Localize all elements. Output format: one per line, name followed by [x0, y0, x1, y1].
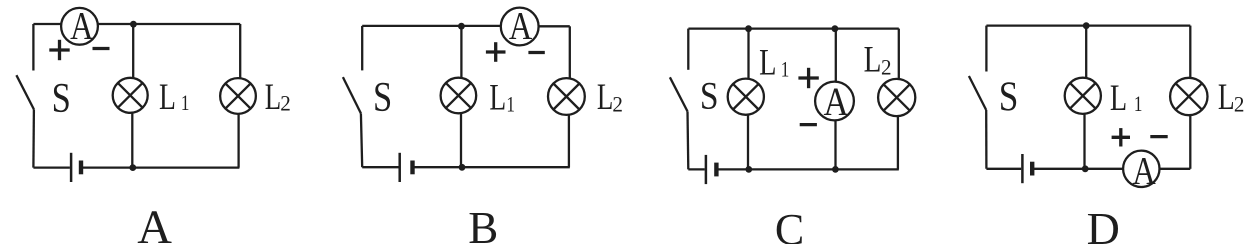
- lamp L1 of circuit A: [113, 78, 148, 113]
- label L1 of circuit D: [1110, 78, 1143, 118]
- circuit choice C: [670, 25, 915, 244]
- node top junction of circuit A: [130, 21, 137, 28]
- wire C: top rail: [688, 27, 898, 29]
- svg-text:A: A: [70, 4, 93, 48]
- svg-text:L: L: [1218, 76, 1235, 117]
- svg-text:L: L: [1110, 78, 1127, 118]
- switch S of circuit B: [343, 26, 362, 167]
- svg-text:1: 1: [181, 91, 190, 116]
- wire B: bottom rail right segment: [413, 166, 570, 168]
- svg-text:S: S: [52, 76, 71, 122]
- node top junction 2 of circuit C: [832, 25, 839, 32]
- wire A: top rail right segment: [98, 23, 241, 25]
- polarity - of ammeter A1 (circuit A): [93, 47, 110, 50]
- polarity + of ammeter A1 (circuit C): [798, 68, 818, 88]
- circuit choice B: [343, 3, 623, 244]
- svg-text:D: D: [1087, 203, 1120, 244]
- wire C: bottom rail right segment: [716, 168, 898, 170]
- battery B1 of circuit A: [71, 153, 81, 182]
- battery B1 of circuit C: [706, 155, 717, 184]
- svg-text:B: B: [468, 203, 498, 244]
- wire A: bottom rail left segment: [33, 166, 70, 168]
- svg-text:L: L: [597, 76, 613, 117]
- wire A: L2 branch bottom: [237, 113, 239, 167]
- wire D: bottom rail left segment: [986, 168, 1021, 170]
- polarity + of ammeter A1 (circuit D): [1112, 128, 1130, 146]
- wire C: L2 branch top: [898, 29, 900, 80]
- ammeter A1 of circuit C: [815, 80, 854, 125]
- svg-text:1: 1: [781, 57, 790, 82]
- lamp L1 of circuit B: [441, 78, 477, 114]
- svg-text:2: 2: [881, 55, 892, 80]
- wire D: L2 branch bottom: [1189, 115, 1191, 169]
- wire A: top rail left segment: [33, 23, 61, 25]
- ammeter A1 of circuit B: [501, 3, 539, 47]
- node bottom junction of circuit D: [1082, 165, 1089, 172]
- wire D: L1 branch bottom: [1083, 113, 1085, 168]
- lamp L2 of circuit D: [1170, 78, 1207, 115]
- svg-text:C: C: [775, 205, 804, 244]
- wire B: top rail right segment: [539, 25, 570, 27]
- wire A: L1 branch bottom: [131, 112, 133, 167]
- polarity - of ammeter A1 (circuit B): [528, 51, 544, 54]
- lamp L2 of circuit B: [548, 78, 585, 115]
- svg-text:A: A: [1132, 148, 1155, 192]
- svg-text:2: 2: [1234, 92, 1245, 117]
- lamp L1 of circuit C: [728, 79, 764, 115]
- ammeter A1 of circuit D: [1123, 148, 1159, 192]
- wire D: bottom rail right segment: [1159, 168, 1190, 170]
- label L2 of circuit B: [597, 76, 623, 117]
- wire B: top rail left segment: [362, 25, 501, 27]
- polarity - of ammeter A1 (circuit C): [800, 123, 817, 126]
- wire B: L1 branch top: [460, 26, 462, 78]
- svg-text:A: A: [137, 201, 172, 244]
- node bottom junction of circuit B: [459, 164, 466, 171]
- node bottom junction of circuit A: [129, 164, 136, 171]
- switch S of circuit C: [670, 29, 688, 170]
- wire D: L2 branch top: [1189, 26, 1191, 79]
- polarity + of ammeter A1 (circuit A): [49, 40, 69, 60]
- wire C: L1 branch bottom: [747, 114, 749, 169]
- svg-text:L: L: [159, 77, 176, 118]
- svg-text:A: A: [509, 3, 532, 47]
- node top junction of circuit D: [1083, 22, 1090, 29]
- circuit choice A: [16, 4, 290, 244]
- lamp L2 of circuit A: [220, 78, 256, 114]
- battery B1 of circuit B: [400, 153, 413, 182]
- label L1 of circuit A: [159, 77, 189, 118]
- wire B: L2 branch bottom: [568, 115, 570, 167]
- ammeter A1 of circuit A: [61, 4, 98, 48]
- node top junction 1 of circuit C: [745, 25, 752, 32]
- svg-text:1: 1: [506, 92, 515, 117]
- label L2 of circuit D: [1218, 76, 1244, 117]
- svg-text:L: L: [759, 43, 776, 83]
- svg-text:L: L: [864, 40, 882, 80]
- lamp L1 of circuit D: [1065, 78, 1101, 114]
- wire D: bottom rail middle segment: [1032, 168, 1123, 170]
- svg-text:2: 2: [280, 91, 291, 116]
- switch S of circuit D: [969, 26, 987, 169]
- battery B1 of circuit D: [1022, 154, 1032, 183]
- wire C: L1 branch top: [747, 29, 749, 80]
- wire B: L1 branch bottom: [460, 114, 462, 167]
- node bottom junction 2 of circuit C: [832, 166, 839, 173]
- node bottom junction 1 of circuit C: [745, 166, 752, 173]
- svg-text:S: S: [373, 75, 392, 121]
- svg-text:L: L: [265, 76, 281, 117]
- wire C: ammeter branch bottom: [834, 120, 836, 169]
- wire A: bottom rail right segment: [81, 166, 239, 168]
- wire C: L2 branch bottom: [897, 116, 899, 170]
- wire B: L2 branch top: [569, 26, 571, 78]
- circuit choice D: [969, 22, 1244, 244]
- wire D: top rail: [986, 24, 1190, 26]
- svg-text:S: S: [999, 73, 1019, 120]
- lamp L2 of circuit C: [878, 79, 915, 116]
- node top junction of circuit B: [458, 23, 465, 30]
- polarity + of ammeter A1 (circuit B): [486, 42, 506, 62]
- wire D: L1 branch top: [1085, 26, 1087, 79]
- wire C: bottom rail left segment: [688, 168, 704, 170]
- label L1 of circuit C: [759, 43, 789, 83]
- wire B: bottom rail left segment: [362, 166, 398, 168]
- svg-text:2: 2: [612, 92, 623, 117]
- svg-text:A: A: [824, 80, 849, 125]
- label L1 of circuit B: [489, 77, 514, 118]
- svg-text:S: S: [700, 74, 719, 117]
- label L2 of circuit C: [864, 40, 892, 80]
- svg-text:L: L: [489, 77, 506, 118]
- wire A: L2 branch top: [239, 24, 241, 79]
- label L2 of circuit A: [265, 76, 291, 117]
- wire A: L1 branch top: [132, 24, 134, 78]
- wire C: ammeter branch top: [835, 29, 837, 83]
- polarity - of ammeter A1 (circuit D): [1150, 135, 1167, 138]
- svg-text:1: 1: [1134, 92, 1143, 117]
- switch S of circuit A: [16, 24, 34, 168]
